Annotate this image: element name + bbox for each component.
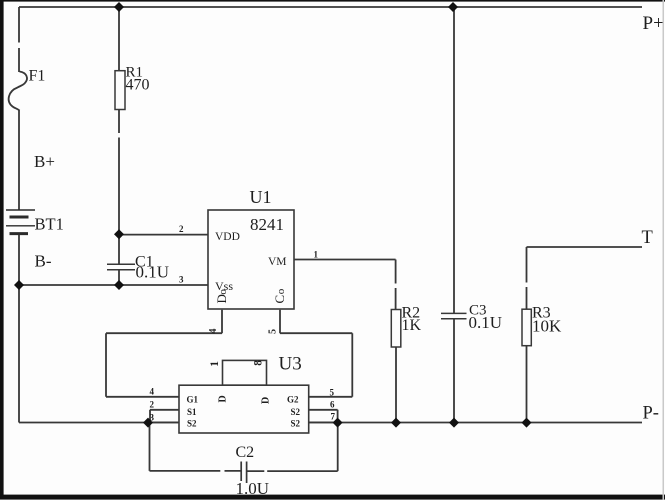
- capacitor C2 left lead: [150, 423, 242, 471]
- svg-text:1: 1: [209, 361, 221, 367]
- wire: R3 bottom lead: [526, 346, 528, 423]
- svg-text:VDD: VDD: [215, 231, 240, 243]
- svg-text:B-: B-: [35, 252, 52, 271]
- wire: battery to B- node: [18, 235, 20, 285]
- svg-text:7: 7: [331, 411, 336, 421]
- svg-text:4: 4: [150, 386, 155, 396]
- node: rail / R3 junction: [522, 418, 532, 428]
- wire: R1 top lead: [118, 7, 120, 71]
- svg-text:2: 2: [179, 224, 184, 234]
- node: top rail / C3 junction: [448, 2, 458, 12]
- svg-text:2: 2: [150, 400, 155, 410]
- wire: U1 Co pin loop to U3 pin 5: [280, 310, 352, 397]
- svg-text:U1: U1: [250, 187, 272, 207]
- svg-text:C: C: [272, 295, 287, 304]
- svg-text:5: 5: [268, 329, 279, 334]
- transistor U3 top box (pins 1,8): [223, 360, 267, 385]
- wire: U1 pin 1 (VM) to R2 top: [294, 260, 396, 310]
- wire: fuse to battery: [18, 110, 20, 210]
- capacitor C3 top lead from P+ rail: [453, 7, 455, 313]
- svg-text:P-: P-: [643, 404, 659, 424]
- svg-text:6: 6: [330, 399, 335, 409]
- wire: U3 pin 6 to rail: [309, 410, 338, 423]
- svg-text:F1: F1: [29, 68, 46, 85]
- svg-text:P+: P+: [643, 13, 664, 34]
- capacitor C1 plates: [107, 263, 135, 265]
- wire: R1 bottom lead: [118, 110, 120, 235]
- capacitor C1 leads: [118, 235, 120, 285]
- node: rail / C3 junction: [449, 418, 459, 428]
- wire: U1 Do pin loop to U3 pin 4: [106, 310, 222, 397]
- capacitor C2 right lead: [247, 423, 338, 471]
- svg-text:B+: B+: [34, 152, 55, 171]
- node: B- left junction: [14, 280, 24, 290]
- capacitor C2 plates: [241, 462, 246, 484]
- capacitor C3 bottom lead: [453, 319, 455, 423]
- wire: bottom P- rail: [19, 422, 642, 424]
- wire: B- node down to bottom rail: [18, 285, 20, 423]
- wire: U3 pin 7 to rail junction: [309, 421, 338, 423]
- wire: top P+ rail: [19, 6, 642, 8]
- svg-text:1K: 1K: [402, 317, 422, 334]
- transistor U3 main box: [179, 385, 309, 433]
- svg-text:U3: U3: [279, 353, 302, 374]
- op-amp U1 box: [208, 210, 294, 309]
- node: top rail / R1 junction: [114, 2, 124, 12]
- svg-text:S1: S1: [187, 407, 197, 417]
- wire: R2 bottom lead: [395, 347, 397, 423]
- battery BT1 plates: [6, 210, 35, 234]
- wire: node to U1 pin 2: [119, 234, 208, 236]
- resistor R3 body: [522, 309, 531, 346]
- resistor R1 body: [115, 71, 125, 110]
- wire: U3 pin 3 from rail junction: [148, 421, 179, 423]
- svg-text:0.1U: 0.1U: [469, 313, 503, 332]
- capacitor C3 plates: [441, 312, 467, 314]
- svg-text:VM: VM: [268, 256, 287, 268]
- svg-text:8: 8: [253, 360, 265, 366]
- node: B- / C1 / pin3 junction: [114, 280, 124, 290]
- svg-text:T: T: [642, 228, 653, 248]
- svg-text:0.1U: 0.1U: [136, 263, 170, 282]
- node: R1 / C1 / pin2 junction: [114, 229, 124, 239]
- svg-text:BT1: BT1: [35, 215, 64, 234]
- svg-text:470: 470: [126, 77, 150, 94]
- svg-text:G2: G2: [287, 395, 299, 405]
- wire: R3 top lead: [526, 247, 528, 309]
- svg-text:8241: 8241: [250, 215, 284, 234]
- svg-text:o: o: [275, 288, 287, 294]
- node: rail / R2 junction: [391, 418, 401, 428]
- svg-text:3: 3: [150, 413, 155, 423]
- svg-text:D: D: [218, 395, 229, 402]
- wire: U3 pin 2 to rail: [150, 410, 179, 423]
- wire: left vertical from top rail to fuse: [18, 7, 20, 72]
- resistor R2 body: [391, 310, 401, 348]
- svg-text:4: 4: [208, 329, 219, 334]
- fuse F1: [9, 72, 27, 111]
- node: rail / C2 left junction: [143, 418, 153, 428]
- svg-text:S2: S2: [187, 418, 197, 428]
- svg-text:5: 5: [330, 387, 335, 397]
- svg-text:S2: S2: [291, 418, 301, 428]
- svg-text:o: o: [217, 289, 229, 295]
- svg-text:1: 1: [314, 250, 319, 260]
- svg-text:G1: G1: [187, 395, 199, 405]
- svg-text:10K: 10K: [532, 317, 562, 336]
- wire: T rail to R3: [527, 246, 643, 248]
- svg-text:C2: C2: [236, 444, 255, 461]
- wire: B- rail to U1 pin 3: [19, 284, 208, 286]
- svg-text:S2: S2: [291, 407, 301, 417]
- svg-text:D: D: [261, 397, 272, 404]
- svg-text:3: 3: [179, 274, 184, 284]
- node: rail / C2 right junction: [333, 418, 343, 428]
